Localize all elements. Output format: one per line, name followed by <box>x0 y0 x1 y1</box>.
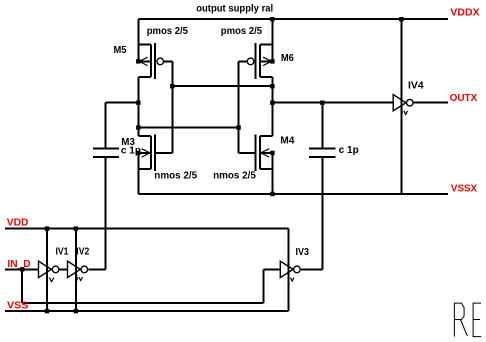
svg-text:M4: M4 <box>280 136 295 147</box>
svg-text:VSS: VSS <box>7 300 28 312</box>
svg-text:c 1p: c 1p <box>121 145 141 156</box>
svg-text:OUTX: OUTX <box>450 92 478 104</box>
svg-text:nmos 2/5: nmos 2/5 <box>213 171 256 182</box>
svg-text:M6: M6 <box>281 53 294 64</box>
svg-text:VDD: VDD <box>7 216 29 228</box>
svg-text:IV3: IV3 <box>296 247 310 258</box>
svg-text:pmos 2/5: pmos 2/5 <box>221 26 263 37</box>
svg-text:pmos 2/5: pmos 2/5 <box>147 26 189 37</box>
svg-text:output supply ral: output supply ral <box>196 4 273 15</box>
svg-text:nmos 2/5: nmos 2/5 <box>154 171 197 182</box>
svg-text:VSSX: VSSX <box>451 183 477 195</box>
svg-text:IV2: IV2 <box>76 246 89 257</box>
svg-text:IN_D: IN_D <box>7 258 31 270</box>
svg-text:IV1: IV1 <box>56 246 69 257</box>
svg-text:c 1p: c 1p <box>339 145 359 156</box>
svg-text:M5: M5 <box>114 45 127 56</box>
svg-text:VDDX: VDDX <box>450 6 479 18</box>
svg-text:IV4: IV4 <box>408 81 424 92</box>
